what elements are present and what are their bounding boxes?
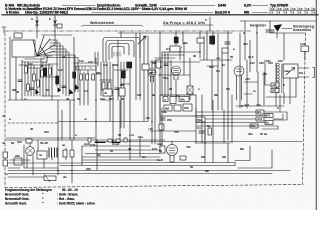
bracket right (313, 68, 315, 78)
svg-text:8a: 8a (152, 93, 156, 97)
svg-text:6: 6 (314, 11, 316, 15)
svg-text:46: 46 (66, 97, 70, 101)
legend line 1 (5, 188, 95, 206)
filter cap 2 (55, 148, 58, 157)
mixer tube section (148, 69, 156, 77)
svg-text:50: 50 (121, 97, 125, 101)
long bus lines (6, 138, 302, 142)
nested wires below switch (19, 59, 50, 68)
connector label box (298, 68, 309, 77)
svg-text:Brennstoff Gest.: Brennstoff Gest. (5, 193, 29, 197)
trimmer arrow (138, 36, 146, 44)
capacitor (164, 64, 168, 66)
wires (150, 52, 200, 62)
header right table rules (270, 8, 316, 15)
coupling unit white box (12, 40, 35, 57)
svg-text:220: 220 (15, 154, 20, 158)
B+ rail (118, 32, 232, 34)
svg-text:25: 25 (230, 55, 234, 59)
wire vertical (180, 44, 184, 75)
band switch fan (33, 36, 55, 58)
IF2 verticals (200, 26, 257, 140)
svg-text:an: an (62, 143, 66, 147)
feedback wire (58, 121, 148, 123)
resistor (92, 74, 95, 80)
svg-text:50k: 50k (180, 98, 185, 102)
harness lines (196, 112, 265, 126)
solid arrow mark M (70, 89, 74, 95)
svg-text:0,1: 0,1 (142, 155, 146, 159)
resistor (37, 80, 40, 87)
svg-text:46: 46 (40, 64, 44, 68)
svg-text:97k: 97k (167, 118, 172, 122)
wire across right (270, 21, 305, 60)
svg-text:a50: a50 (44, 130, 49, 134)
svg-text:+m: +m (216, 56, 221, 60)
resistor (49, 68, 52, 75)
resistor (108, 82, 111, 90)
long vertical to psu (58, 100, 70, 140)
svg-text:4x: 4x (2, 114, 6, 118)
wires (195, 60, 232, 163)
svg-text:112: 112 (103, 63, 108, 67)
svg-text:112: 112 (79, 59, 84, 63)
box with label (103, 89, 112, 96)
mains box (37, 151, 47, 159)
small box top (14, 33, 22, 38)
tag 2n (265, 121, 273, 125)
svg-text:Schutzltr Gest.: Schutzltr Gest. (5, 202, 27, 206)
dark box 212 (210, 36, 215, 44)
svg-text:+7k: +7k (148, 127, 153, 131)
dark box 120 (174, 37, 178, 43)
svg-text:5k: 5k (207, 124, 211, 128)
tube pins (174, 75, 178, 81)
svg-text:6: 6 (307, 11, 309, 15)
box (222, 48, 228, 53)
rectifier tube (26, 147, 35, 156)
extra value labels scatter (62, 41, 248, 179)
mixer coil box (74, 63, 98, 70)
heater cap (266, 30, 274, 32)
IF stage verticals (152, 31, 171, 148)
capacitor (115, 88, 119, 90)
svg-text:RE: RE (205, 169, 209, 173)
box 220 (14, 158, 22, 165)
connector ties (42, 64, 60, 96)
label MF 468,2 kHz (163, 21, 205, 25)
svg-text:1+0: 1+0 (129, 133, 134, 137)
svg-text:RE: RE (240, 147, 244, 151)
svg-text:6: 6 (300, 11, 302, 15)
output stage left edge (265, 60, 276, 85)
horizontal wire y60 (200, 60, 258, 94)
dark component (127, 62, 132, 68)
svg-text:als: als (63, 175, 67, 179)
svg-text:12: 12 (62, 55, 66, 59)
label Niederspannung Anschluss (293, 25, 315, 33)
box component (142, 64, 149, 70)
resistor (86, 74, 89, 80)
svg-text:31,5: 31,5 (248, 55, 254, 59)
box (159, 124, 164, 130)
value labels psu (2, 140, 120, 176)
label 112 (79, 59, 84, 63)
wire (304, 52, 306, 61)
vertical drops to buses (97, 100, 130, 170)
box with x (187, 86, 193, 94)
svg-text:50: 50 (46, 88, 50, 92)
resistor (102, 82, 105, 90)
filter caps right (63, 150, 67, 157)
transformer core (282, 64, 283, 93)
dashed border bottom (5, 185, 303, 188)
dashed mains left (8, 122, 58, 124)
wire jack down (245, 21, 277, 60)
label Wellenbereich I u. II (90, 21, 114, 25)
svg-text:Anschluss: Anschluss (293, 28, 311, 32)
dark resistor (56, 76, 59, 84)
vertical drop (139, 138, 141, 157)
svg-text:30: 30 (193, 54, 197, 58)
ground bus lines (8, 171, 290, 178)
chassis dash-dot line (5, 30, 252, 32)
cathode resistor (160, 146, 165, 153)
output transformer coil (275, 63, 277, 93)
svg-text:50: 50 (190, 165, 194, 169)
tag 42a (256, 110, 264, 114)
svg-text:0,1: 0,1 (166, 47, 170, 51)
heater return wire (236, 105, 284, 107)
svg-text:50 - 80 - 10: 50 - 80 - 10 (62, 188, 78, 192)
earth arrow E (54, 16, 56, 24)
value labels detector (216, 69, 256, 93)
svg-text:1M: 1M (137, 93, 142, 97)
svg-text:: Gelb - Braun.: : Gelb - Braun. (57, 193, 78, 197)
cap (199, 131, 204, 133)
coil right verticals (136, 33, 148, 121)
svg-text:1,5k: 1,5k (300, 42, 306, 46)
svg-text:500: 500 (109, 97, 114, 101)
speaker box (283, 64, 298, 78)
dimension line Zw.Frequ (163, 24, 213, 26)
svg-text:0,1: 0,1 (197, 126, 201, 130)
value labels coil cluster (100, 83, 125, 101)
svg-text:40n: 40n (248, 132, 253, 136)
small box (156, 60, 161, 68)
left mid tiny labels (2, 114, 49, 134)
resistor (27, 84, 30, 91)
svg-text:50: 50 (118, 133, 122, 137)
svg-text:46a: 46a (183, 41, 188, 45)
detector box cluster (160, 95, 196, 116)
tiny value labels (12, 62, 74, 101)
resistor (41, 70, 44, 77)
svg-text:Best.Nr 6: Best.Nr 6 (215, 11, 230, 15)
svg-text:: Gelb 50/25, blank - schw.: : Gelb 50/25, blank - schw. (57, 202, 95, 206)
component row under mixer (73, 72, 76, 78)
grid line (158, 74, 190, 76)
header rule (2, 14, 318, 16)
svg-text:100: 100 (272, 89, 277, 93)
dimension line Wellenbereich (82, 25, 144, 26)
svg-text:100: 100 (17, 140, 22, 144)
harness returns (235, 112, 287, 168)
svg-text:im: im (39, 153, 43, 157)
svg-text:0,1: 0,1 (84, 89, 88, 93)
svg-text:112: 112 (88, 60, 93, 64)
svg-text:10a: 10a (138, 135, 143, 139)
svg-text:1m8: 1m8 (157, 158, 163, 162)
svg-text:6: 6 (272, 11, 274, 15)
heater wires (95, 142, 120, 144)
IF takeoff vertical (209, 17, 211, 31)
svg-text:47k: 47k (186, 145, 191, 149)
svg-text:92: 92 (159, 149, 163, 153)
left stacked resistors (3, 152, 8, 158)
coupling box (170, 46, 180, 52)
wire jack to label (282, 28, 292, 30)
resistor 1.5k (301, 46, 309, 52)
svg-text:0,5: 0,5 (226, 87, 230, 91)
plate feed vertical (176, 31, 183, 50)
detector tube (234, 66, 244, 76)
svg-text:and: and (244, 103, 249, 107)
svg-text:220: 220 (86, 167, 91, 171)
svg-text:25: 25 (110, 149, 114, 153)
svg-text:Brennstoff Gest.: Brennstoff Gest. (5, 197, 29, 201)
svg-text:100: 100 (100, 97, 105, 101)
oscillator spiral coil (103, 38, 140, 63)
bus bottom of input stage (8, 99, 74, 101)
svg-text:6 Kreise: 6 Kreise (6, 11, 19, 15)
svg-text:112: 112 (58, 68, 63, 72)
grid resistor (180, 156, 186, 160)
wire antenna down (37, 26, 55, 46)
svg-text:Zw.Frequ = 468,2 kHz: Zw.Frequ = 468,2 kHz (163, 21, 205, 25)
svg-text:20k: 20k (96, 71, 101, 75)
svg-text:25: 25 (169, 87, 173, 91)
header field rule segments (62, 6, 268, 13)
svg-text:4x: 4x (2, 141, 6, 145)
label (244, 103, 262, 107)
resistor (33, 74, 36, 81)
wire AGC vertical (161, 108, 163, 148)
tag 40n (250, 124, 258, 128)
tag 470k (265, 114, 273, 118)
labels above cluster (103, 63, 119, 67)
svg-text:1n5: 1n5 (152, 147, 157, 151)
solid arrow mark L (58, 87, 62, 93)
svg-text:101: 101 (266, 59, 271, 63)
svg-text:: Rot - Grau.: : Rot - Grau. (57, 197, 75, 201)
svg-text:212: 212 (250, 61, 255, 65)
svg-text:2M: 2M (120, 83, 125, 87)
transformer leads down (266, 78, 296, 112)
svg-text:97k: 97k (184, 106, 189, 110)
vertical (176, 58, 190, 100)
mixer verticals (74, 37, 98, 140)
cap left mid (160, 118, 165, 120)
dashed border left (4, 33, 6, 187)
svg-text:100: 100 (278, 59, 283, 63)
svg-text:1m8: 1m8 (157, 142, 163, 146)
svg-text:E: E (49, 17, 51, 21)
svg-text:60: 60 (11, 141, 15, 145)
svg-text:1n: 1n (222, 63, 226, 67)
svg-text:6: 6 (293, 11, 295, 15)
pot with arrow (44, 176, 56, 181)
capacitor (18, 80, 66, 90)
svg-text:Kle: Kle (299, 71, 304, 75)
left edge terminal mark (2, 27, 6, 33)
small boxes below transformer (271, 83, 279, 87)
dark arrow mark (75, 84, 79, 90)
dark component (122, 71, 126, 78)
svg-text:2k: 2k (149, 71, 153, 75)
svg-text:6: 6 (286, 11, 288, 15)
coil hatches (114, 52, 120, 56)
box (197, 38, 204, 43)
filter cap 1 (49, 148, 52, 157)
svg-text:+25: +25 (245, 77, 250, 81)
switch hub dot (36, 55, 38, 57)
dark resistor (44, 68, 47, 76)
svg-text:E446: E446 (218, 4, 226, 8)
svg-text:120k: 120k (112, 63, 119, 67)
svg-text:mG: mG (256, 103, 262, 107)
svg-text:50k: 50k (209, 65, 214, 69)
small box top psu (26, 139, 32, 143)
svg-text:+0,5: +0,5 (257, 117, 263, 121)
volume pot box (196, 117, 205, 122)
svg-text:Ukw-Sp. 110/220V Mf 468,2: Ukw-Sp. 110/220V Mf 468,2 (25, 11, 68, 15)
phone jack triangle (274, 24, 283, 32)
IF amp tube (172, 66, 181, 75)
wire coil to rail (120, 31, 122, 38)
verticals below coil (96, 40, 130, 141)
svg-text:40: 40 (30, 127, 34, 131)
svg-text:W6: W6 (244, 11, 249, 15)
svg-text:Wellenbereich: Wellenbereich (90, 21, 114, 25)
resistor (25, 66, 28, 73)
svg-text:120: 120 (28, 62, 33, 66)
capacitor (225, 42, 230, 44)
svg-text:Folgeanordnung der Stellungen: Folgeanordnung der Stellungen (5, 188, 52, 192)
svg-text:6,3V: 6,3V (244, 4, 252, 8)
svg-text:470: 470 (266, 114, 271, 118)
svg-text:470: 470 (243, 42, 248, 46)
staircase wires right of switch (42, 35, 78, 96)
svg-text:Heizleiter: Heizleiter (250, 24, 267, 28)
coupling box at earth (57, 24, 62, 28)
tag 0,5n (256, 117, 264, 121)
svg-text:2,5k: 2,5k (90, 143, 96, 147)
svg-text:37k: 37k (174, 130, 179, 134)
header row 3 (6, 11, 316, 15)
dashed border right (303, 33, 306, 186)
svg-text:4x: 4x (104, 91, 108, 95)
agc line (150, 100, 213, 140)
svg-text:42n: 42n (257, 110, 262, 114)
svg-text:50+50: 50+50 (40, 141, 48, 145)
value labels IF (163, 76, 181, 98)
output tube (167, 145, 178, 156)
svg-text:75a: 75a (163, 76, 168, 80)
resistor (208, 128, 211, 135)
wires psu (8, 138, 82, 183)
svg-text:+52: +52 (145, 116, 150, 120)
value labels IF2 (216, 47, 254, 60)
svg-text:1m8: 1m8 (84, 142, 90, 146)
antenna label A (31, 17, 51, 21)
svg-text:50 Hz: 50 Hz (260, 132, 268, 136)
svg-text:+10: +10 (262, 72, 267, 76)
top small boxes (88, 138, 91, 142)
antenna arrow A (36, 16, 38, 24)
left mid labels (129, 110, 179, 139)
connector wires (96, 70, 130, 100)
svg-text:2n: 2n (266, 121, 270, 125)
svg-text:46: 46 (128, 147, 132, 151)
speaker arrow (286, 68, 295, 76)
svg-text:6: 6 (279, 11, 281, 15)
heater wire across (240, 20, 316, 22)
label Heizleiter (250, 24, 267, 28)
earth terminal E (54, 24, 56, 26)
bus left edge (82, 146, 235, 166)
resistor (80, 74, 83, 80)
trimmer cross (177, 47, 182, 52)
mixer box hatches (79, 67, 92, 70)
svg-text:RE: RE (214, 93, 218, 97)
header row 1 (5, 4, 315, 12)
svg-text:+48: +48 (272, 83, 277, 87)
tube pins (170, 141, 174, 163)
nested corner wires (8, 167, 58, 169)
svg-text:5k: 5k (77, 97, 81, 101)
left column verticals (10, 37, 52, 100)
antenna terminal A (36, 24, 38, 26)
right sheet edge (315, 0, 317, 210)
junction dot (241, 105, 243, 107)
box component (119, 88, 125, 96)
svg-text:122: 122 (259, 61, 264, 65)
solid arrow (36, 89, 40, 95)
value labels mixer (77, 71, 101, 101)
svg-text:50k: 50k (197, 118, 202, 122)
header row 2 (5, 7, 188, 11)
IF labels (152, 61, 162, 69)
